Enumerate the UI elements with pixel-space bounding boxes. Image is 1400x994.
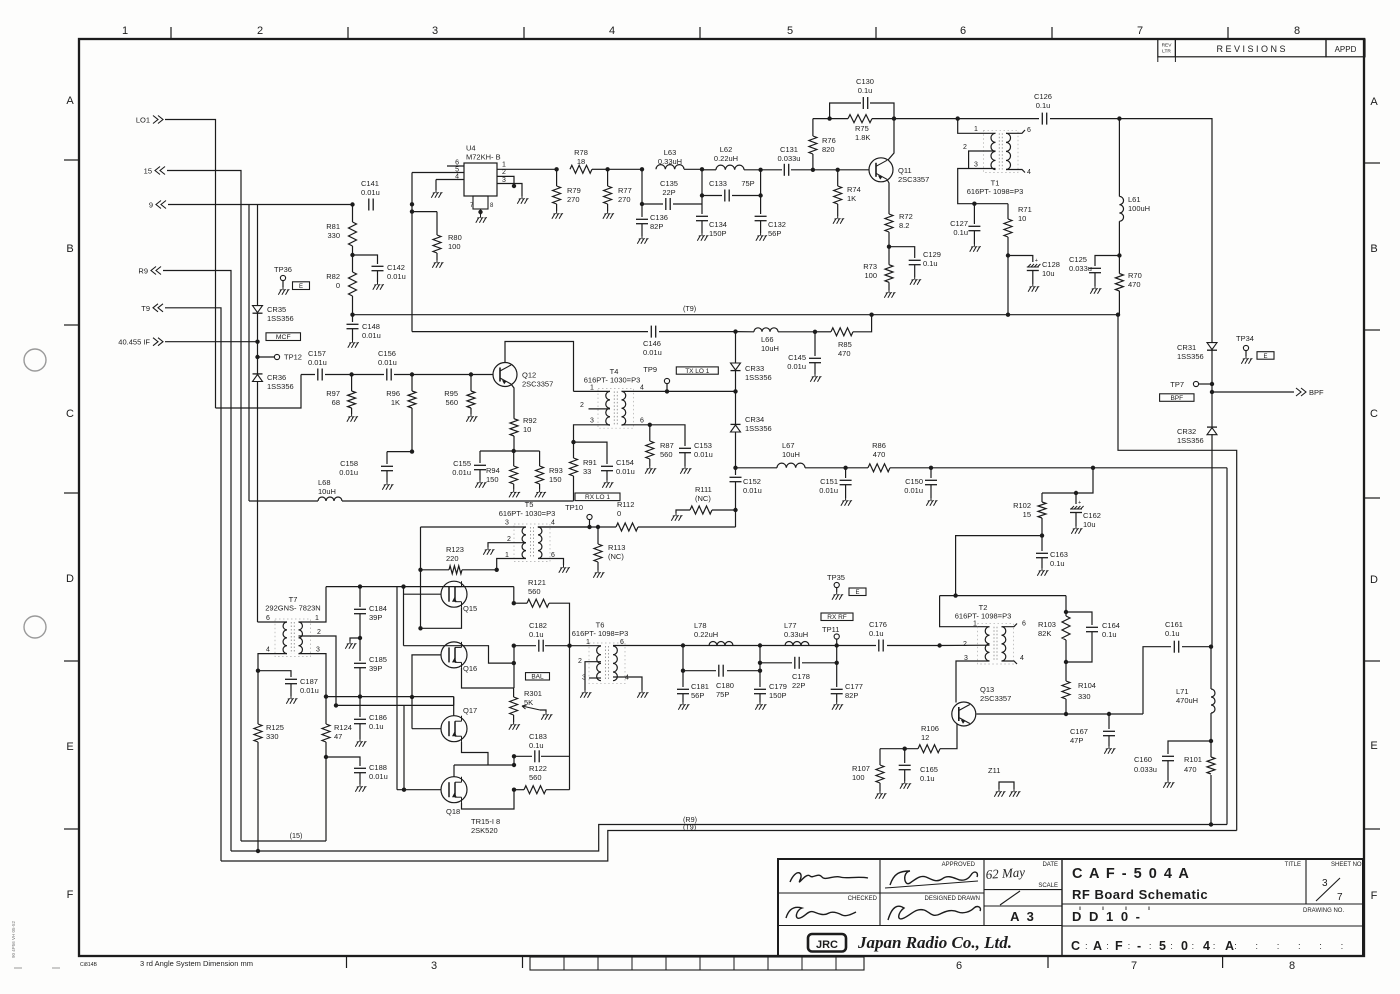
svg-text:0.33uH: 0.33uH <box>784 630 808 639</box>
node R81 bottom <box>350 253 354 257</box>
capacitor C151 <box>845 468 847 478</box>
svg-text:C146: C146 <box>643 339 661 348</box>
wire C146 line <box>412 331 648 333</box>
svg-text:R101: R101 <box>1184 755 1202 764</box>
svg-text:3 rd Angle System Dimensio: 3 rd Angle System Dimension mm <box>140 959 253 968</box>
svg-text:R76: R76 <box>822 136 836 145</box>
svg-text:TX LO 1: TX LO 1 <box>685 368 710 375</box>
node R122 left <box>512 788 516 792</box>
svg-text:CR33: CR33 <box>745 364 764 373</box>
svg-text:1: 1 <box>505 552 509 559</box>
svg-text:3: 3 <box>582 675 586 682</box>
svg-text:0.01u: 0.01u <box>616 467 635 476</box>
node T2 rail <box>953 593 957 597</box>
wire T2 pin6 stub <box>1002 624 1018 627</box>
svg-text:0.22uH: 0.22uH <box>694 630 718 639</box>
test point TP9 <box>665 389 669 393</box>
svg-text:560: 560 <box>445 398 458 407</box>
svg-text:C163: C163 <box>1050 550 1068 559</box>
svg-text:3: 3 <box>502 177 506 184</box>
svg-text:R70: R70 <box>1128 271 1142 280</box>
wire C135 level <box>641 169 643 204</box>
svg-text:270: 270 <box>618 195 631 204</box>
signature approved <box>790 873 868 882</box>
wire rail pin2 to Q18 <box>403 705 405 789</box>
resistor R82 <box>352 255 354 272</box>
punch hole bottom <box>24 616 46 638</box>
capacitor C179 <box>759 671 761 687</box>
svg-text:TP9: TP9 <box>643 365 657 374</box>
svg-text:R112: R112 <box>617 500 634 509</box>
ground U4 pin3 <box>521 196 523 199</box>
resistor R95 <box>470 375 472 392</box>
wire T9 rail <box>165 308 221 861</box>
resistor R79 <box>556 169 558 186</box>
node T2 pin2 <box>937 643 941 647</box>
svg-text:3: 3 <box>974 162 978 169</box>
capacitor C184 <box>359 587 361 607</box>
node R73 top <box>887 245 891 249</box>
wire T1 pin1 <box>958 119 996 134</box>
resistor R92 <box>510 419 518 436</box>
node Q17 source <box>512 763 516 767</box>
bus R9 bottom <box>231 825 1227 852</box>
svg-text:2: 2 <box>580 402 584 409</box>
node R124 bottom <box>324 755 328 759</box>
wire Q12 base line <box>301 374 493 376</box>
wire Q17 source <box>462 742 489 765</box>
svg-text::: : <box>1213 941 1216 952</box>
svg-text:560: 560 <box>660 450 673 459</box>
svg-text:R103: R103 <box>1038 620 1056 629</box>
svg-text:6: 6 <box>956 960 962 972</box>
wire T5 pin4 <box>538 526 590 528</box>
svg-text:C188: C188 <box>369 763 387 772</box>
node L61 top <box>1117 116 1121 120</box>
inductor L67 <box>777 463 805 468</box>
svg-text:4: 4 <box>551 520 555 527</box>
node Q17 feed <box>410 695 414 699</box>
svg-text:T5: T5 <box>525 500 534 509</box>
capacitor C161 <box>1171 640 1182 653</box>
svg-text:0.01u: 0.01u <box>787 362 806 371</box>
node L62 left <box>700 167 704 171</box>
svg-text:8: 8 <box>1294 25 1300 37</box>
svg-text:M72KH- B: M72KH- B <box>466 153 501 162</box>
net box TX LO 1 <box>676 367 718 374</box>
svg-text:C153: C153 <box>694 441 712 450</box>
wire T2 pin3 <box>956 661 990 703</box>
wire CR31 to TP7 <box>1211 350 1213 392</box>
svg-text:LO1: LO1 <box>136 116 150 125</box>
wire Q15 gate <box>404 593 442 595</box>
svg-text:0.01u: 0.01u <box>387 272 406 281</box>
svg-text:F: F <box>1115 939 1123 953</box>
svg-text:MCF: MCF <box>276 334 291 341</box>
wire U4 pin3 <box>497 184 522 197</box>
capacitor C152 <box>735 468 737 475</box>
resistor R123 <box>449 566 462 574</box>
capacitor C182 <box>514 645 536 647</box>
capacitor C167 <box>1108 714 1110 729</box>
node C184 top <box>358 584 362 588</box>
svg-text:Q11: Q11 <box>898 166 912 175</box>
node C145 top <box>813 330 817 334</box>
svg-text:C: C <box>1370 408 1378 420</box>
svg-text:LTR: LTR <box>1162 49 1171 55</box>
svg-text:150P: 150P <box>769 691 787 700</box>
wire T2 pin1 drop <box>940 596 990 627</box>
capacitor C146 <box>648 325 659 338</box>
svg-text:BPF: BPF <box>1170 395 1183 402</box>
node T4 pin3 junction <box>571 440 575 444</box>
node C162 top <box>1074 491 1078 495</box>
svg-text:10u: 10u <box>1042 269 1055 278</box>
resistor R97 <box>351 375 353 392</box>
node R71 bottom <box>1006 253 1010 257</box>
svg-text:D D 1 0 -: D D 1 0 - <box>1072 909 1142 924</box>
mosfet Q18 <box>441 777 467 803</box>
wire CR36 rail down to T7 <box>257 382 259 623</box>
svg-text:Q17: Q17 <box>463 706 477 715</box>
svg-text:820: 820 <box>822 145 835 154</box>
capacitor C157 <box>317 369 319 381</box>
svg-text:3: 3 <box>431 960 437 972</box>
svg-text:L63: L63 <box>664 148 677 157</box>
svg-text:C154: C154 <box>616 458 634 467</box>
svg-text:560: 560 <box>528 587 541 596</box>
node R96 top <box>410 372 414 376</box>
node T9 line R71 <box>1006 313 1010 317</box>
transformer T2 <box>985 627 989 661</box>
node pin2 line <box>334 703 338 707</box>
svg-text:6: 6 <box>455 160 459 167</box>
node C167 top <box>1107 712 1111 716</box>
node BPF junction <box>1210 390 1214 394</box>
capacitor C145 <box>814 332 816 356</box>
svg-text:9: 9 <box>149 201 153 210</box>
svg-text:4: 4 <box>1020 655 1024 662</box>
svg-text:C135: C135 <box>660 179 678 188</box>
svg-text:100uH: 100uH <box>1128 204 1150 213</box>
svg-text:1K: 1K <box>391 398 400 407</box>
svg-text:22P: 22P <box>792 681 805 690</box>
svg-text:4: 4 <box>1203 939 1210 953</box>
svg-text:5: 5 <box>1159 939 1166 953</box>
wire CR34 to R9 line <box>735 432 737 468</box>
svg-text:8.2: 8.2 <box>899 221 909 230</box>
svg-text:C126: C126 <box>1034 92 1052 101</box>
svg-text:6: 6 <box>551 552 555 559</box>
node IF junction <box>255 340 259 344</box>
svg-text:E: E <box>66 741 73 753</box>
wire T5 pin1 <box>497 559 526 570</box>
node T7 pin4 junction <box>256 669 260 673</box>
wire R102 drop <box>1042 468 1093 493</box>
svg-text:0.033u: 0.033u <box>778 154 801 163</box>
zone ticks left <box>64 159 79 161</box>
wire to L63 <box>608 168 642 170</box>
svg-text:10uH: 10uH <box>318 487 336 496</box>
capacitor C153 <box>679 447 691 449</box>
wire T4 pin1 <box>574 390 611 392</box>
wire C134 drop <box>701 169 703 214</box>
node Q15 source <box>418 626 422 630</box>
svg-text:L67: L67 <box>782 441 795 450</box>
svg-text:0.01u: 0.01u <box>819 486 838 495</box>
wire Q13 emitter <box>940 724 957 749</box>
capacitor C155 <box>479 451 481 463</box>
svg-text:C152: C152 <box>743 477 761 486</box>
signature H Shiroki <box>888 906 980 920</box>
node R77 top <box>605 167 609 171</box>
svg-text:APPROVED: APPROVED <box>942 862 976 868</box>
svg-text:C162: C162 <box>1083 511 1101 520</box>
svg-text:A: A <box>66 95 74 107</box>
wire T4 pin4 line <box>622 390 736 392</box>
svg-text:C158: C158 <box>340 459 358 468</box>
svg-text:6: 6 <box>1027 127 1031 134</box>
node C141 left <box>350 202 354 206</box>
wire Q18 source <box>462 790 515 809</box>
wire 15 stub <box>241 840 326 842</box>
svg-text:616PT- 1098=P3: 616PT- 1098=P3 <box>572 629 629 638</box>
svg-text:L77: L77 <box>784 621 797 630</box>
svg-text:A: A <box>1370 96 1378 108</box>
svg-text:R301: R301 <box>524 689 542 698</box>
node R74 top <box>836 168 840 172</box>
svg-text:R85: R85 <box>838 340 852 349</box>
resistor R93 <box>539 451 541 466</box>
resistor R80 <box>412 211 437 213</box>
svg-text:R87: R87 <box>660 441 674 450</box>
svg-text:470: 470 <box>1128 280 1141 289</box>
wire C126 line <box>958 118 1120 120</box>
svg-text:SHEET NO.: SHEET NO. <box>1331 862 1364 868</box>
svg-text:RX LO 1: RX LO 1 <box>585 494 610 501</box>
node C184 bottom <box>358 636 362 640</box>
resistor R104 <box>1065 663 1067 681</box>
node TX LO junction <box>735 371 737 392</box>
svg-text:R102: R102 <box>1013 501 1031 510</box>
node C164 top <box>1064 610 1068 614</box>
wire T6 pin4 <box>613 677 642 690</box>
test point TP36 <box>280 275 285 280</box>
test point TP35 <box>834 582 839 587</box>
inductor L62 <box>716 165 744 170</box>
inductor L71 <box>1210 647 1212 689</box>
svg-text:10: 10 <box>1018 214 1026 223</box>
svg-text:U4: U4 <box>466 144 476 153</box>
wire R106 left <box>880 748 918 750</box>
node L71 bottom <box>1209 739 1213 743</box>
mm ruler <box>530 957 864 970</box>
capacitor C134 <box>696 215 708 217</box>
resistor R111 <box>712 509 736 511</box>
svg-text:(15): (15) <box>290 831 303 840</box>
svg-text:1: 1 <box>590 385 594 392</box>
svg-text:Q16: Q16 <box>463 664 477 673</box>
node C161 right <box>1209 645 1213 649</box>
svg-text:0.1u: 0.1u <box>369 722 384 731</box>
wire T2 top line <box>940 595 1066 597</box>
svg-text:Z11: Z11 <box>988 766 1000 775</box>
svg-text:L62: L62 <box>720 145 733 154</box>
wire T7 pin4 <box>258 654 287 671</box>
svg-text:C181: C181 <box>691 682 709 691</box>
svg-text:7: 7 <box>1137 25 1143 37</box>
svg-text:330: 330 <box>266 732 279 741</box>
svg-text:0.01u: 0.01u <box>300 686 319 695</box>
svg-text::: : <box>1170 941 1173 952</box>
svg-text:R96: R96 <box>386 389 400 398</box>
capacitor C129 <box>889 247 915 258</box>
wire R121 feed <box>513 587 515 604</box>
svg-text:10u: 10u <box>1083 520 1096 529</box>
svg-text:C164: C164 <box>1102 621 1120 630</box>
svg-text:R104: R104 <box>1078 681 1096 690</box>
svg-text:R91: R91 <box>583 458 597 467</box>
svg-text:0.22uH: 0.22uH <box>714 154 738 163</box>
svg-text:Q13: Q13 <box>980 685 994 694</box>
wire Q18 drain <box>453 765 455 777</box>
svg-text:1SS356: 1SS356 <box>267 314 294 323</box>
svg-text:0.1u: 0.1u <box>923 259 938 268</box>
wire T7 pin3 line <box>326 696 454 698</box>
transformer T7 <box>283 622 287 654</box>
resistor R75 <box>848 115 872 123</box>
svg-text:33: 33 <box>583 467 591 476</box>
wire T6 pin3 <box>589 677 601 679</box>
wire R9 rail right <box>1226 468 1228 825</box>
svg-text:0.01u: 0.01u <box>339 468 358 477</box>
svg-text:R125: R125 <box>266 723 284 732</box>
zone ticks right <box>1364 162 1380 164</box>
svg-text:C: C <box>66 408 74 420</box>
svg-text:7: 7 <box>1131 960 1137 972</box>
svg-text:R79: R79 <box>567 186 581 195</box>
resistor R96 <box>411 375 413 392</box>
svg-text:75P: 75P <box>716 690 729 699</box>
svg-text:C134: C134 <box>709 220 727 229</box>
svg-text:2: 2 <box>507 536 511 543</box>
svg-text:15: 15 <box>144 167 152 176</box>
svg-text:R86: R86 <box>872 441 886 450</box>
svg-text:(T9): (T9) <box>683 304 696 313</box>
node C127 top <box>972 202 976 206</box>
resistor R121 <box>514 602 527 604</box>
wire R104 bottom <box>1065 699 1067 714</box>
wire R123 line <box>421 569 450 571</box>
capacitor C148 <box>352 315 354 322</box>
svg-text:DESIGNED DRAWN: DESIGNED DRAWN <box>925 896 980 902</box>
test point TP34 <box>1243 345 1248 350</box>
wire to C161 <box>1143 647 1211 714</box>
node C181 top <box>681 643 685 647</box>
inductor L77 <box>785 642 809 646</box>
svg-text:E: E <box>1263 354 1267 360</box>
svg-text:TP35: TP35 <box>827 573 845 582</box>
svg-text:0: 0 <box>617 509 621 518</box>
wire T9 drop right <box>1118 315 1237 831</box>
svg-text:0.1u: 0.1u <box>953 228 968 237</box>
svg-text:TP34: TP34 <box>1236 334 1254 343</box>
title block dividers <box>879 859 881 926</box>
svg-text:(NC): (NC) <box>608 552 624 561</box>
wire T9 top line <box>353 314 1119 316</box>
svg-text:R113: R113 <box>608 543 625 552</box>
wire LO1 jog to C157 <box>216 375 302 409</box>
diode CR31 <box>1207 343 1217 350</box>
capacitor C177 <box>836 663 838 687</box>
svg-text:DATE: DATE <box>1042 862 1058 868</box>
svg-text:C129: C129 <box>923 250 941 259</box>
signature F Tomd <box>786 907 856 918</box>
node R123 left <box>418 568 422 572</box>
capacitor C130 <box>830 103 861 119</box>
svg-text:R122: R122 <box>529 764 547 773</box>
svg-text:4: 4 <box>1027 169 1031 176</box>
svg-text:0.1u: 0.1u <box>1165 629 1180 638</box>
svg-text:C187: C187 <box>300 677 318 686</box>
wire T1 pin2 <box>969 151 996 169</box>
node R75 left <box>827 116 831 120</box>
node R92 bottom <box>512 449 516 453</box>
svg-text:1: 1 <box>502 162 506 169</box>
svg-text:R106: R106 <box>921 724 939 733</box>
svg-text:C184: C184 <box>369 604 387 613</box>
svg-text:3: 3 <box>590 418 594 425</box>
wire R9 line <box>736 467 778 469</box>
wire U4 pin5 <box>412 172 464 174</box>
title block outer <box>778 859 1363 956</box>
capacitor C135 <box>665 198 667 210</box>
wire top right corner <box>1119 119 1212 343</box>
svg-text:TP12: TP12 <box>284 353 302 362</box>
svg-text:0.01u: 0.01u <box>378 358 397 367</box>
svg-text:2: 2 <box>578 658 582 665</box>
resistor R113 <box>597 527 599 544</box>
node C136 top <box>640 167 644 171</box>
wire left rail T5 <box>420 527 422 628</box>
net box RX LO 1 <box>575 493 620 501</box>
wire IF rail <box>257 205 259 306</box>
svg-text:C128: C128 <box>1042 260 1060 269</box>
svg-text:150: 150 <box>486 475 499 484</box>
svg-text:47P: 47P <box>1070 736 1083 745</box>
wire 40.455 IF <box>165 341 258 343</box>
svg-text:Q12: Q12 <box>522 371 536 380</box>
svg-text:0.1u: 0.1u <box>529 741 544 750</box>
diode CR34 <box>735 391 737 424</box>
svg-text:1: 1 <box>973 621 977 628</box>
svg-text:0.1u: 0.1u <box>1050 559 1065 568</box>
node C185 bottom <box>358 694 362 698</box>
svg-text::: : <box>1277 941 1280 952</box>
svg-text:C125: C125 <box>1069 255 1087 264</box>
svg-text:10uH: 10uH <box>761 344 779 353</box>
capacitor C176 <box>876 639 887 652</box>
capacitor C126 <box>1039 112 1050 125</box>
resistor R77 <box>607 169 609 186</box>
svg-text:3: 3 <box>316 647 320 654</box>
svg-text::: : <box>1255 941 1258 952</box>
node R97 top <box>349 372 353 376</box>
svg-text::: : <box>1128 941 1131 952</box>
svg-text:E: E <box>855 590 859 596</box>
node C152 bottom <box>733 508 737 512</box>
svg-text:6: 6 <box>1022 621 1026 628</box>
